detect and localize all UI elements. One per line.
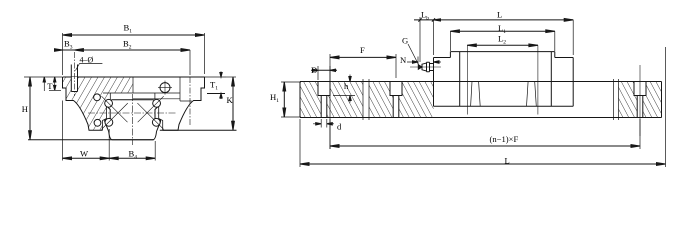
svg-text:K: K bbox=[227, 95, 234, 105]
baseline bbox=[28, 130, 237, 140]
carriage leg inner faces bbox=[103, 102, 163, 131]
svg-text:T: T bbox=[47, 81, 53, 91]
dimensions T1 and K bbox=[205, 76, 227, 78]
dimension d bbox=[313, 119, 334, 128]
carriage section hatched left half bbox=[63, 77, 134, 130]
svg-text:D: D bbox=[311, 65, 317, 75]
dimension F bbox=[330, 54, 396, 149]
hatch areas bbox=[300, 82, 321, 118]
carriage block side view bbox=[434, 58, 574, 107]
svg-text:H: H bbox=[22, 104, 28, 114]
dimension T bbox=[49, 89, 61, 91]
svg-text:d: d bbox=[337, 121, 342, 131]
rail side view body bbox=[300, 82, 662, 118]
4-dia label underline and leader bbox=[76, 64, 103, 71]
svg-text:W: W bbox=[80, 149, 89, 159]
rail profile bbox=[105, 100, 161, 132]
svg-text:h: h bbox=[344, 81, 349, 91]
svg-text:B1: B1 bbox=[124, 23, 133, 35]
svg-text:L2: L2 bbox=[498, 34, 506, 46]
end cap boundary right half bbox=[133, 77, 192, 101]
dimension (n-1)xF bbox=[330, 119, 640, 149]
svg-text:B3: B3 bbox=[64, 39, 73, 51]
rail hole 2 counterbore bbox=[390, 82, 402, 118]
dimension H bbox=[24, 76, 62, 78]
dimension B1 bbox=[63, 33, 205, 75]
rail centerlines bbox=[132, 94, 134, 145]
hole centerline right wing bbox=[189, 77, 191, 126]
bolt hole 4-o left bbox=[71, 77, 77, 92]
svg-text:T1: T1 bbox=[210, 80, 218, 92]
carriage top face bbox=[63, 76, 205, 78]
carriage right profile bbox=[163, 77, 205, 130]
crosshair hole right bbox=[160, 83, 170, 93]
contact lines right bbox=[137, 96, 163, 129]
svg-text:4–Ø: 4–Ø bbox=[80, 56, 94, 65]
dimension L bottom bbox=[300, 47, 666, 167]
dimensions W and B4 bbox=[63, 101, 156, 161]
svg-text:N: N bbox=[400, 55, 407, 65]
dimension L1 bbox=[450, 30, 554, 32]
block end seal legs bbox=[471, 82, 537, 107]
return balls bbox=[94, 94, 101, 101]
carriage underside lines bbox=[103, 93, 180, 100]
dimension N bbox=[407, 57, 441, 65]
svg-text:H1: H1 bbox=[270, 92, 279, 104]
svg-text:F: F bbox=[360, 45, 365, 55]
hole centerline bbox=[73, 52, 75, 96]
dimension L2 bbox=[467, 44, 538, 46]
dimensions Lb and L top bbox=[420, 17, 434, 62]
hole centerlines in block bbox=[467, 45, 538, 114]
svg-text:B2: B2 bbox=[123, 39, 132, 51]
loaded balls bbox=[105, 99, 113, 107]
svg-text:G: G bbox=[402, 36, 408, 46]
rail end hole counterbore bbox=[634, 82, 646, 118]
dimension h bbox=[333, 75, 355, 103]
rail hole 1 counterbore bbox=[318, 82, 330, 118]
G leader bbox=[408, 44, 419, 65]
grease nipple bbox=[418, 65, 422, 69]
carriage left profile bbox=[63, 77, 103, 130]
contact lines left bbox=[102, 96, 128, 129]
dimension B2 and B3 bbox=[189, 50, 191, 75]
dimension H1 bbox=[281, 82, 301, 117]
svg-text:(n−1)×F: (n−1)×F bbox=[490, 134, 519, 144]
svg-text:L: L bbox=[505, 155, 510, 165]
svg-text:L: L bbox=[497, 9, 502, 19]
dimension D bbox=[318, 66, 330, 81]
break lines bbox=[363, 79, 619, 120]
